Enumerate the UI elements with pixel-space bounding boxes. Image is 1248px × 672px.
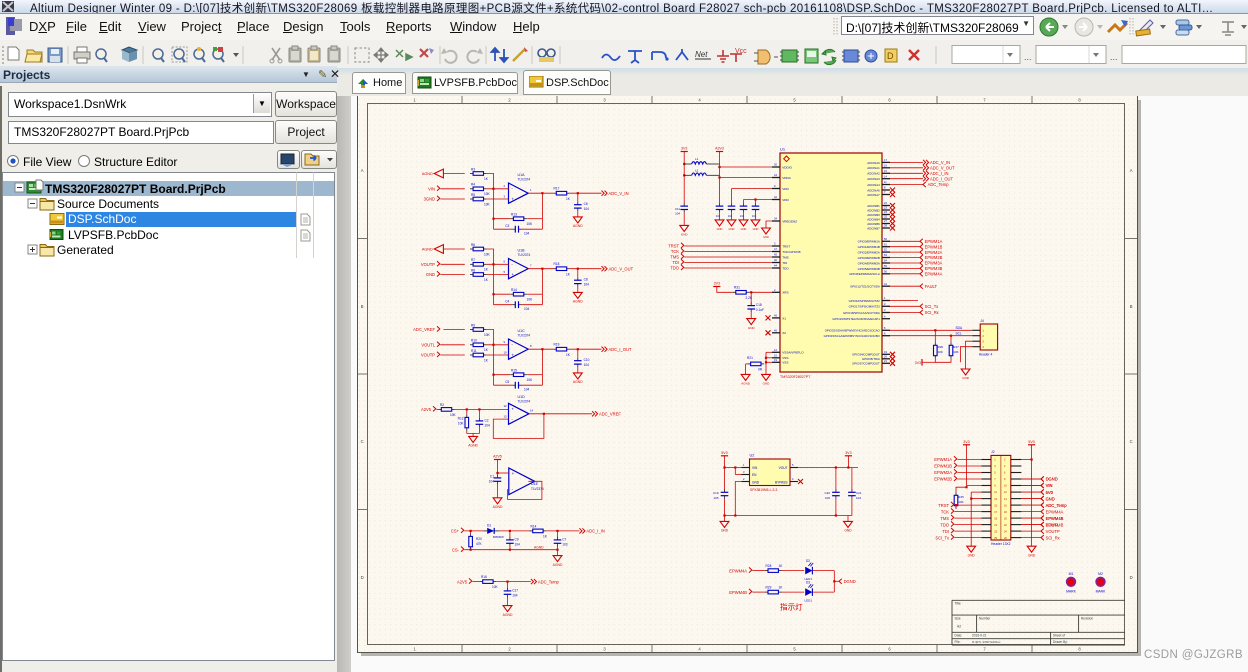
- junction rail C19: [723, 514, 725, 516]
- wire R16 to port: [496, 581, 531, 583]
- wire VIN (J2 right): [1021, 485, 1041, 487]
- no-connect ADCINA pin: [890, 188, 895, 193]
- svg-text:GPIO5/EPWM3B: GPIO5/EPWM3B: [858, 267, 880, 271]
- port VIN (J2 right): [1041, 483, 1044, 488]
- wire EPWM3B: [890, 267, 920, 269]
- port ADC_V_OUT: [923, 165, 929, 170]
- svg-text:B: B: [361, 304, 364, 309]
- resistor R28: [765, 570, 768, 572]
- svg-text:XRS: XRS: [782, 291, 788, 295]
- wire ADC_I_OUT: [890, 178, 923, 180]
- svg-text:ADC_Temp: ADC_Temp: [538, 579, 560, 584]
- pin 1 (J2 left): [981, 459, 991, 461]
- svg-text:EPWM4A: EPWM4A: [729, 568, 747, 573]
- port EPWM4A: [920, 271, 923, 276]
- pin 12 (J2 right): [1011, 491, 1022, 493]
- no-connect ADCINB pin: [890, 221, 895, 226]
- wire J1 pin3 to ground: [966, 341, 973, 369]
- ground AGND: [573, 217, 582, 223]
- junction 3V3 out: [847, 466, 849, 468]
- wire divider bottoms: [467, 427, 480, 433]
- pin 53 (GPIO3/EPWM2B): [882, 257, 890, 259]
- svg-text:+: +: [512, 471, 515, 476]
- wire C20 to rail: [835, 499, 837, 516]
- junction SDAA/R26: [934, 329, 936, 331]
- pin 25 (ADCINB4): [882, 218, 890, 220]
- svg-text:SCI_Rx: SCI_Rx: [925, 310, 939, 315]
- wire port to R29: [752, 591, 765, 593]
- wire cap to ground: [577, 367, 579, 373]
- svg-text:TCK: TCK: [671, 249, 679, 254]
- svg-text:U1E: U1E: [531, 482, 539, 486]
- svg-text:B: B: [1130, 304, 1133, 309]
- wire to output port: [570, 348, 602, 350]
- svg-text:10K: 10K: [484, 202, 491, 206]
- wire to AGND: [557, 550, 559, 556]
- svg-text:10K: 10K: [527, 222, 534, 226]
- svg-text:10K: 10K: [484, 192, 491, 196]
- port DGND (J2 right): [1041, 476, 1044, 481]
- junction CS- C7: [556, 549, 558, 551]
- pin 19 (VSS): [772, 361, 780, 363]
- pin 7 (J2 left): [981, 478, 991, 480]
- svg-text:C10: C10: [584, 358, 590, 362]
- wire C9 bottom: [509, 546, 511, 550]
- svg-text:TLV2374: TLV2374: [518, 253, 531, 257]
- junction R25 TRST: [955, 504, 957, 506]
- svg-text:Sheet of: Sheet of: [1053, 634, 1065, 638]
- svg-text:X2: X2: [782, 331, 786, 335]
- svg-text:...: ...: [1024, 52, 1032, 62]
- wire cap to output leg: [522, 304, 543, 306]
- pin 2 (GPIO17/SPISOMIA/TZ3): [882, 305, 890, 307]
- ground GND (C18): [747, 319, 756, 325]
- svg-text:R4: R4: [471, 183, 475, 187]
- svg-text:GND: GND: [844, 529, 852, 533]
- wire TCK (J2): [954, 511, 981, 513]
- capacitor C9: [509, 531, 511, 538]
- svg-text:EPWM4A: EPWM4A: [925, 272, 943, 277]
- toolbar: [0, 40, 1248, 69]
- wire D2 to common: [813, 570, 835, 572]
- svg-text:R7: R7: [471, 258, 475, 262]
- sheet inner border: [368, 104, 1125, 645]
- svg-text:5V0: 5V0: [721, 451, 727, 455]
- pin 4 (J2 right): [1011, 465, 1022, 467]
- wire port to R3: [443, 173, 464, 175]
- port ADC_Temp (IC): [923, 182, 926, 187]
- wire U1D output: [529, 413, 592, 415]
- pin 23 (ADCINB2): [882, 209, 890, 211]
- svg-text:+: +: [511, 406, 514, 411]
- wire DGND (J2 right): [1021, 478, 1041, 480]
- svg-text:J2: J2: [991, 450, 995, 454]
- wire VDDIO: [720, 166, 773, 168]
- svg-text:X1: X1: [782, 316, 786, 320]
- port ADC_Temp (J2 right): [1041, 503, 1044, 508]
- svg-text:C6: C6: [584, 202, 588, 206]
- svg-text:10K: 10K: [450, 413, 457, 417]
- junction cap tap: [478, 408, 480, 410]
- capacitor C20: [835, 468, 837, 491]
- wire to pin 10 of U1C: [487, 354, 509, 356]
- no-connect X2: [766, 330, 771, 335]
- wire SCI_Tx (IC): [890, 305, 920, 307]
- svg-text:ADC_V_IN: ADC_V_IN: [609, 191, 629, 196]
- ground GND (reg out): [844, 521, 853, 527]
- wire cap to ground: [577, 211, 579, 217]
- svg-text:CS+: CS+: [451, 529, 460, 534]
- wire EPWM4A (J2 right): [1021, 517, 1041, 519]
- junction divider: [466, 408, 468, 410]
- junction 5V0 row1: [1031, 458, 1033, 460]
- ground GND (VSS): [762, 374, 771, 380]
- pin 2 (GND): [742, 481, 750, 483]
- resistor R29: [765, 591, 768, 593]
- resistor R10: [470, 344, 473, 346]
- svg-text:M2: M2: [1098, 572, 1103, 576]
- svg-text:A: A: [1130, 168, 1133, 173]
- svg-text:3V3: 3V3: [845, 451, 851, 455]
- pin 25 (J2 left): [981, 537, 991, 539]
- svg-text:104: 104: [716, 214, 721, 218]
- wire ADC_Temp: [890, 184, 923, 186]
- no-connect ADCINB pin: [890, 226, 895, 231]
- svg-text:VOUTP: VOUTP: [421, 262, 435, 267]
- wire 3V3 drop: [847, 456, 849, 468]
- window title bar: [0, 0, 1248, 14]
- svg-text:GPIO2/EPWM2A: GPIO2/EPWM2A: [858, 251, 880, 255]
- wire VOUT: [798, 467, 858, 469]
- svg-text:47K: 47K: [476, 542, 483, 546]
- svg-text:GND: GND: [1046, 496, 1055, 501]
- port EPWM2B: [920, 255, 923, 260]
- svg-text:Drawn By:: Drawn By:: [1053, 640, 1068, 644]
- op-amp U1C: [509, 339, 529, 359]
- svg-text:AGND: AGND: [534, 545, 544, 549]
- wire ADC_V_IN: [890, 161, 923, 163]
- svg-text:GPIO34/COMP2OUT: GPIO34/COMP2OUT: [852, 353, 880, 357]
- pin 28 (ADCINB7): [882, 227, 890, 229]
- svg-text:EPWM1B: EPWM1B: [925, 244, 943, 249]
- resistor R12 (to ground): [466, 409, 468, 414]
- port ADC_V_OUT: [602, 266, 608, 271]
- junction feedback: [492, 218, 494, 220]
- svg-text:GPIO17/SPISOMIA/TZ3: GPIO17/SPISOMIA/TZ3: [849, 305, 881, 309]
- svg-text:C5: C5: [505, 380, 509, 384]
- workspace combo: [8, 92, 272, 117]
- wire EPWM3A: [890, 262, 920, 264]
- ground GND (C14): [739, 220, 748, 226]
- junction A3V3 VDDIO: [718, 166, 720, 168]
- svg-text:R19: R19: [554, 342, 560, 346]
- svg-text:13: 13: [504, 415, 508, 419]
- pin 6 (GPIO33/SCLA/EPWMSYNCO/ADCSOCBO): [882, 335, 890, 337]
- svg-text:104: 104: [524, 388, 530, 392]
- resistor R18 (output): [553, 268, 556, 270]
- svg-text:L1: L1: [695, 157, 699, 161]
- svg-text:A2V5: A2V5: [493, 455, 502, 459]
- no-connect ADCINB pin: [890, 212, 895, 217]
- menu bar: [0, 14, 1248, 40]
- svg-text:R27: R27: [953, 345, 959, 349]
- wire ADC_V_OUT: [890, 167, 923, 169]
- port VIN (J2 right): [1041, 483, 1044, 488]
- svg-text:TLV2374: TLV2374: [518, 333, 531, 337]
- wire TDO: [684, 267, 772, 269]
- wire VDD1: [732, 188, 773, 190]
- svg-text:GPIO4/EPWM3A: GPIO4/EPWM3A: [858, 261, 880, 265]
- resistor R26: [934, 330, 936, 342]
- header J1 body: [980, 324, 997, 350]
- pin 5 (VOUT): [790, 467, 798, 469]
- junction A3V3 VDDA: [718, 176, 720, 178]
- pin 24 (ADCINB3): [882, 214, 890, 216]
- wire port to R5: [440, 198, 464, 200]
- resistor R19 (output): [553, 348, 556, 350]
- capacitor C19: [724, 468, 726, 491]
- wire to non-inverting input: [498, 472, 509, 474]
- svg-text:104: 104: [489, 479, 495, 483]
- junction C17 top: [506, 581, 508, 583]
- ground GND (C12): [715, 220, 724, 226]
- port EPWM1B: [920, 244, 923, 249]
- svg-text:C: C: [361, 439, 364, 444]
- pin 11 (J2 left): [981, 491, 991, 493]
- svg-text:MARK: MARK: [1096, 590, 1107, 594]
- pin 15 (J2 left): [981, 504, 991, 506]
- wire EPWM1B: [890, 246, 920, 248]
- wire SDAA: [890, 329, 972, 331]
- pin 23 (J2 left): [981, 530, 991, 532]
- wire R3 to inverting node: [487, 174, 494, 189]
- op-amp U1A: [509, 183, 529, 203]
- resistor R20 (to CS-): [470, 531, 472, 533]
- ground GND (C19): [720, 521, 729, 527]
- svg-text:VDDA: VDDA: [782, 176, 792, 180]
- wire EN tie: [734, 468, 736, 475]
- wire C11 to ground: [683, 212, 685, 225]
- pin 2 (XRS): [772, 291, 780, 293]
- svg-text:5V0: 5V0: [1046, 490, 1054, 495]
- svg-text:GPIO12/TZ1/SCITXDA: GPIO12/TZ1/SCITXDA: [850, 285, 880, 289]
- svg-text:GPIO35/TDIA: GPIO35/TDIA: [862, 357, 880, 361]
- svg-text:C9: C9: [515, 537, 519, 541]
- svg-text:3V3: 3V3: [681, 147, 687, 151]
- svg-text:VOUTP: VOUTP: [421, 353, 435, 358]
- svg-text:105: 105: [713, 496, 718, 500]
- svg-text:R31: R31: [734, 286, 740, 290]
- svg-text:TMS: TMS: [782, 255, 789, 259]
- svg-text:AGND: AGND: [503, 613, 513, 617]
- wire SCI_Tx (J2): [954, 537, 981, 539]
- svg-text:ADCINA6: ADCINA6: [867, 188, 880, 192]
- junction L2: [683, 174, 685, 176]
- port VOUTP (J2 right): [1041, 529, 1044, 534]
- project icon: [27, 182, 41, 193]
- wire R20 bottom: [470, 549, 472, 551]
- ground AGND (U1D divider): [469, 436, 478, 442]
- junction LED common: [833, 580, 835, 582]
- capacitor C21: [851, 468, 853, 491]
- junction EN tie: [734, 466, 736, 468]
- wire to ground: [472, 433, 474, 436]
- wire 5V0 (J2 right): [1021, 491, 1041, 493]
- wire 3V3 rail: [683, 152, 685, 204]
- port ADC_V_IN: [602, 191, 608, 196]
- pin 51 (GPIO1/EPWM1B): [882, 246, 890, 248]
- svg-text:GND: GND: [681, 233, 689, 237]
- port EPWM3A: [920, 260, 923, 265]
- svg-text:2016-9-21: 2016-9-21: [972, 634, 987, 638]
- expander source documents: [28, 199, 37, 208]
- wire feedback right leg: [541, 193, 543, 229]
- port FAULT: [920, 284, 923, 289]
- svg-text:10: 10: [504, 350, 508, 354]
- wire ADC_Temp (J2 right): [1021, 504, 1041, 506]
- svg-text:SCI_Tx: SCI_Tx: [935, 535, 949, 540]
- svg-text:VIN: VIN: [1046, 483, 1053, 488]
- pin 46 (X2): [772, 332, 780, 334]
- svg-text:C19: C19: [713, 491, 719, 495]
- svg-text:指示灯: 指示灯: [780, 602, 803, 612]
- folder source documents: [40, 199, 54, 211]
- ground AGND (CS): [553, 556, 562, 562]
- wire TCK: [684, 251, 772, 253]
- port EPWM2A: [920, 250, 923, 255]
- svg-text:TRST: TRST: [668, 244, 679, 249]
- wire R25 to TRST row: [955, 505, 957, 509]
- svg-text:D: D: [1130, 575, 1133, 580]
- inductor L1: [684, 163, 691, 165]
- svg-text:AGND: AGND: [422, 172, 433, 176]
- svg-text:FAULT: FAULT: [925, 284, 938, 289]
- pin 5 (J2 left): [981, 472, 991, 474]
- svg-text:C3: C3: [505, 224, 509, 228]
- svg-text:R5: R5: [471, 193, 475, 197]
- pin 8 (ADCINA6): [882, 189, 890, 191]
- svg-text:ADC_Temp: ADC_Temp: [928, 182, 950, 187]
- svg-text:GPIO32/SDAA/EPWMSYNCI/ADCSOCAO: GPIO32/SDAA/EPWMSYNCI/ADCSOCAO: [825, 329, 881, 333]
- svg-text:EPWM3B: EPWM3B: [925, 266, 943, 271]
- svg-text:TDO: TDO: [782, 266, 789, 270]
- wire GPIO16: [890, 300, 918, 302]
- pin 34 (VREGENZ): [772, 220, 780, 222]
- svg-text:10K: 10K: [458, 422, 465, 426]
- svg-text:ADC_I_OUT: ADC_I_OUT: [609, 347, 632, 352]
- svg-text:10K: 10K: [953, 350, 958, 354]
- svg-text:ADCINA2: ADCINA2: [867, 172, 880, 176]
- pin 26 (J2 right): [1011, 537, 1022, 539]
- ground GND (J2 left): [967, 546, 976, 552]
- wire port to R4: [440, 188, 464, 190]
- svg-text:GPIO37/COMP2OUT: GPIO37/COMP2OUT: [852, 362, 880, 366]
- svg-text:D1: D1: [487, 523, 491, 527]
- svg-text:SDA: SDA: [956, 326, 963, 330]
- pin 30 (VDDIO): [772, 166, 780, 168]
- wire feedback resistor to output leg: [527, 293, 542, 295]
- wire TRST (J2): [954, 504, 981, 506]
- pin 2 (J2 right): [1011, 459, 1022, 461]
- svg-text:VIN: VIN: [752, 466, 758, 470]
- wire feedback right leg: [541, 269, 543, 305]
- op-amp U1B: [509, 259, 529, 279]
- resistor R14 (feedback): [494, 293, 511, 295]
- junction A2V5/C1: [496, 472, 498, 474]
- junction feedback U1D: [543, 413, 545, 415]
- pin 15 (ADCINA2): [882, 172, 890, 174]
- wire EPWM4A (J2 right): [1021, 511, 1041, 513]
- junction at filter cap: [577, 268, 579, 270]
- svg-text:GND: GND: [968, 553, 976, 557]
- svg-text:R15: R15: [511, 368, 517, 372]
- svg-text:ADC_Temp: ADC_Temp: [1046, 503, 1068, 508]
- port ADC_I_IN: [923, 171, 929, 176]
- svg-text:TDO: TDO: [670, 266, 679, 271]
- wire feedback left leg: [493, 345, 495, 385]
- pin 17 (ADCINA0): [882, 161, 890, 163]
- pin 4 (BYPASS): [790, 481, 798, 483]
- capacitor C1: [497, 473, 499, 476]
- svg-text:TCK/GPIO38: TCK/GPIO38: [782, 250, 801, 254]
- pin 13 (J2 left): [981, 498, 991, 500]
- svg-text:5V0: 5V0: [1028, 440, 1034, 444]
- svg-text:104: 104: [512, 593, 518, 597]
- wire EPWM4B (J2 right): [1021, 524, 1041, 526]
- resistor R21: [748, 363, 751, 365]
- pin 11 (ADCINA4): [882, 184, 890, 186]
- ground AGND: [573, 292, 582, 298]
- capacitor C13: [731, 203, 733, 206]
- wire 3V3 to row5: [967, 445, 982, 486]
- no-connect ADCINB pin: [890, 217, 895, 222]
- pin 19 (GPIO34/COMP2OUT): [882, 353, 890, 355]
- wire port to R9: [443, 329, 464, 331]
- svg-text:GPIO0/EPWM1A: GPIO0/EPWM1A: [858, 240, 880, 244]
- ground GND (J2 right): [1027, 546, 1036, 552]
- capacitor C2: [478, 409, 480, 418]
- svg-text:A: A: [361, 168, 364, 173]
- svg-text:TLV2374: TLV2374: [518, 399, 531, 403]
- wire C7 bottom: [557, 546, 559, 550]
- svg-text:GPIO33/SCLA/EPWMSYNCO/ADCSOCBO: GPIO33/SCLA/EPWMSYNCO/ADCSOCBO: [824, 334, 881, 338]
- wire TDO (J2): [954, 524, 981, 526]
- capacitor C12: [719, 203, 721, 206]
- wire EPWM2B: [890, 257, 920, 259]
- svg-text:3V3: 3V3: [915, 361, 921, 365]
- svg-text:TCK: TCK: [941, 509, 949, 514]
- svg-text:EPWM2B: EPWM2B: [925, 255, 943, 260]
- wire TDI: [684, 262, 772, 264]
- ground AGND: [573, 373, 582, 379]
- svg-text:10K: 10K: [527, 378, 534, 382]
- resistor R5: [470, 198, 473, 200]
- wire EPWM4A: [890, 273, 920, 275]
- wire to pin 2 of U1A: [487, 188, 509, 190]
- wire VSS rail: [765, 352, 767, 374]
- port EPWM4B (J2 right): [1041, 516, 1044, 521]
- svg-text:Header 13X2: Header 13X2: [991, 542, 1011, 546]
- doc status icons: [301, 214, 310, 225]
- svg-text:VOUTL: VOUTL: [421, 343, 435, 348]
- port ADC_V_IN: [923, 160, 929, 165]
- pin 9 (VDD): [772, 188, 780, 190]
- resistor R11: [470, 354, 473, 356]
- port GND (J2 right): [1041, 496, 1044, 501]
- svg-text:D2: D2: [806, 559, 810, 563]
- pin 2 (J1): [972, 335, 980, 337]
- junction feedback: [492, 374, 494, 376]
